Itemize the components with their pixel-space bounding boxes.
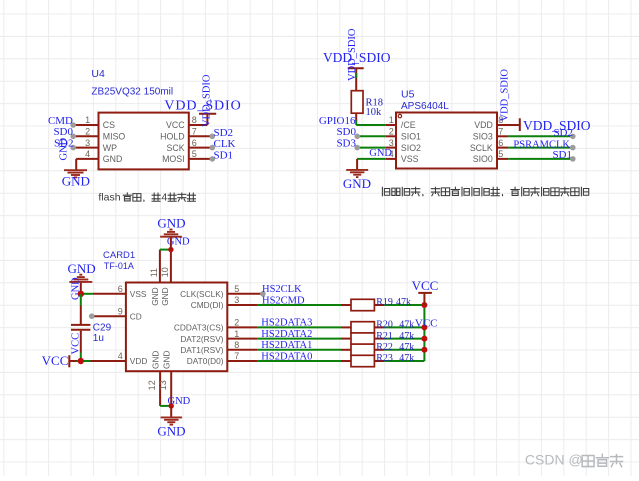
designator U4 [91,68,105,80]
svg-text:APS6404L: APS6404L [401,101,449,112]
svg-text:HS2CMD: HS2CMD [262,295,305,306]
net label CLK [214,138,236,150]
U4 pin 1 CS [73,115,115,130]
svg-text:1u: 1u [93,333,104,344]
svg-text:10: 10 [160,267,170,277]
svg-text:12: 12 [147,380,157,390]
svg-text:SD1: SD1 [552,149,572,161]
ground GND (U5) [343,170,371,191]
CARD1 pin 12 GND (bottom) [147,351,160,406]
net label HS2DATA0 [261,351,312,362]
svg-text:CMD(DI): CMD(DI) [191,300,224,310]
svg-text:HOLD: HOLD [160,132,184,142]
svg-text:/CE: /CE [401,120,416,130]
net label VCC rotated (C29) [70,333,81,355]
dangling wire ends U4 left pins 1-3 [70,122,76,150]
net label SD3 (U5) [336,138,356,150]
svg-text:GND: GND [369,148,392,159]
wire HS2DATA1 [258,349,341,351]
svg-text:7: 7 [234,351,239,361]
svg-text:U4: U4 [91,68,105,80]
svg-text:47k: 47k [399,320,414,331]
svg-text:GND: GND [162,351,172,369]
svg-text:GND: GND [150,351,160,369]
U4 pin 5 MOSI [162,149,212,164]
svg-text:GND: GND [157,423,185,438]
svg-text:CLK(SCLK): CLK(SCLK) [180,289,224,299]
dangling wire end (HS2CLK) [260,291,266,297]
svg-text:1: 1 [234,329,239,339]
U4 pin 6 SCK [167,138,213,153]
svg-text:VDD_SDIO: VDD_SDIO [202,74,213,127]
wire HS2DATA2 [258,338,341,340]
net label HS2CMD [262,295,305,306]
U4 pin 8 VCC [166,115,207,130]
svg-text:47k: 47k [396,297,411,308]
annotation: flash chip note [98,191,195,203]
dangling wire ends U4 right pins 7,6,5 [210,134,216,162]
svg-text:VCC: VCC [412,278,439,293]
wire bottom pins join [160,405,171,407]
svg-text:4: 4 [118,351,123,361]
U5 pin 5 SIO0 [473,149,573,164]
junction (card top) [168,247,173,252]
C29 designator [93,323,112,334]
ground GND inverted (card left) [68,261,96,294]
svg-text:3: 3 [85,138,90,148]
net label SD1 [214,149,234,161]
designator CARD1 [103,250,135,261]
net label HS2CLK [262,284,302,295]
svg-text:CS: CS [103,120,115,130]
R18 designator [366,97,384,108]
svg-text:SIO0: SIO0 [473,154,493,164]
svg-text:CLK: CLK [214,138,236,150]
ground GND inverted (card top) [157,216,185,250]
power port VDD_SDIO (U4 pin 8) [164,99,241,125]
dangling wire ends U5 pins 2,3 [354,134,360,151]
svg-text:2: 2 [389,127,394,137]
U5 pin 8 VDD [474,115,520,130]
net label GND small (card bottom) [168,396,191,407]
comment ZB25VQ32 150mil [91,86,173,97]
svg-text:6: 6 [192,138,197,148]
svg-text:SD2: SD2 [553,127,573,139]
wire HS2DATA0 [258,360,341,362]
svg-text:DAT2(RSV): DAT2(RSV) [180,334,223,344]
junction dots on VCC rail [421,302,427,353]
svg-text:VDD_SDIO: VDD_SDIO [500,69,511,122]
svg-text:HS2DATA2: HS2DATA2 [261,329,312,340]
comment APS6404L [401,101,449,112]
svg-text:2: 2 [85,127,90,137]
svg-text:VCC: VCC [70,333,81,355]
svg-text:HS2DATA1: HS2DATA1 [261,340,312,351]
wire (green fleck below power port) [355,73,357,78]
capacitor C29 [71,325,90,330]
svg-text:SD3: SD3 [336,138,356,150]
svg-text:ZB25VQ32 150mil: ZB25VQ32 150mil [91,86,173,97]
net label PSRAMCLK [513,139,570,150]
net label GND small (card top) [167,237,190,248]
U5 pin 6 SCLK [470,138,573,153]
svg-text:VCC: VCC [166,120,185,130]
svg-text:8: 8 [234,340,239,350]
svg-text:4: 4 [85,149,90,159]
net label GND rotated (card left) [70,277,81,300]
junction (pin6/C29) [78,291,84,297]
svg-text:GND: GND [157,216,185,231]
svg-text:CD: CD [130,311,142,321]
svg-text:8: 8 [192,115,197,125]
net label SD2 (U5) [553,127,573,139]
svg-text:GND: GND [59,137,70,160]
net label SD1 (U5) [552,149,572,161]
svg-text:VDD_SDIO: VDD_SDIO [347,28,358,81]
svg-text:5: 5 [498,149,503,159]
svg-text:9: 9 [118,306,123,316]
wire HS2CMD [258,304,341,306]
svg-text:47k: 47k [399,331,414,342]
svg-text:SD0: SD0 [336,126,356,138]
svg-text:SIO3: SIO3 [473,132,493,142]
svg-text:R22: R22 [376,342,393,353]
ground GND (card bottom) [157,406,185,438]
svg-text:VSS: VSS [130,289,147,299]
svg-text:1: 1 [389,115,394,125]
flash chip U4 body [99,113,189,170]
svg-text:VCC: VCC [42,353,69,368]
dangling wire ends U5 right [570,134,576,162]
U5 chip body APS6404L [396,113,497,169]
svg-text:GND: GND [160,287,170,305]
resistor R22 47k [341,342,424,356]
svg-text:R20: R20 [376,320,393,331]
svg-text:DAT1(RSV): DAT1(RSV) [180,345,223,355]
power port VDD_SDIO (above R18) [323,50,391,91]
junction (card bottom) [169,403,174,408]
net label HS2DATA2 [261,329,312,340]
annotation: memory chip note [382,187,588,196]
svg-text:GPIO16: GPIO16 [319,115,356,127]
CARD1 pin 8 DAT1(RSV) [180,340,257,355]
CARD1 pin 6 VSS [81,284,147,299]
resistor R18 [351,91,363,114]
power port VCC (rail top) [412,278,439,305]
svg-text:GND: GND [62,174,90,189]
svg-text:VCC: VCC [415,317,438,329]
svg-text:SIO2: SIO2 [401,143,421,153]
net label SD2 (U4 pin 7) [214,127,234,139]
wire C29 top [80,294,82,324]
svg-text:CMD: CMD [48,115,73,127]
net label GPIO16 [319,115,356,127]
svg-text:U5: U5 [401,88,415,100]
svg-text:GND: GND [168,396,191,407]
net label GND rotated (U4 pin 4) [59,137,70,160]
watermark [525,451,623,467]
net label SD2 (U4 left) [54,138,74,150]
svg-text:7: 7 [498,127,503,137]
svg-text:HS2DATA3: HS2DATA3 [261,318,312,329]
svg-text:13: 13 [158,380,168,390]
svg-text:WP: WP [103,143,117,153]
net label VDD_SDIO rotated (U5 right) [500,69,511,122]
net label VCC (on rail) [415,317,438,329]
U5 pin 7 SIO3 [473,127,573,142]
svg-text:HS2DATA0: HS2DATA0 [261,351,312,362]
U5 pin 3 SIO2 [357,138,421,153]
svg-text:6: 6 [118,284,123,294]
wire U4 pin4 to ground [75,159,77,170]
CARD1 pin 13 GND (bottom) [158,351,171,406]
svg-text:R21: R21 [376,331,393,342]
net label CMD [48,115,73,127]
wire VCC rail [423,305,425,361]
svg-text:R19: R19 [376,297,393,308]
svg-text:47k: 47k [399,342,414,353]
svg-text:3: 3 [389,138,394,148]
C29 value 1u [93,333,104,344]
svg-text:SCLK: SCLK [470,143,493,153]
U5 pin 4 VSS [357,149,419,164]
svg-text:1: 1 [85,115,90,125]
svg-text:VDD: VDD [474,120,493,130]
net label HS2DATA1 [261,340,312,351]
svg-text:TF-01A: TF-01A [104,261,134,271]
svg-text:GND: GND [103,154,123,164]
CARD1 pin 3 CMD(DI) [191,295,258,310]
comment TF-01A [104,261,134,271]
svg-text:SD1: SD1 [214,149,234,161]
svg-text:HS2CLK: HS2CLK [262,284,302,295]
R18 value 10k [366,107,383,118]
svg-text:GND: GND [68,261,96,276]
wire U5 VSS to ground [356,159,358,170]
svg-text:SD2: SD2 [214,127,234,139]
svg-text:10k: 10k [366,107,383,118]
U4 pin 3 WP [73,138,117,153]
U4 pin 4 GND [76,149,122,164]
svg-text:5: 5 [192,149,197,159]
svg-text:SIO1: SIO1 [401,132,421,142]
resistor R21 47k [341,331,424,345]
power port VDD_SDIO (U5 VDD) [520,118,591,133]
svg-text:4: 4 [161,191,167,203]
resistor R23 47k [341,353,424,366]
svg-text:CSDN @: CSDN @ [525,451,583,467]
resistor R20 47k [341,320,424,334]
SD card connector CARD1 body [126,283,227,372]
U4 pin 7 HOLD [160,127,212,142]
net label GND (U5 VSS) [369,148,392,159]
svg-text:7: 7 [192,127,197,137]
svg-text:SD0: SD0 [53,126,73,138]
net label HS2DATA3 [261,318,312,329]
svg-text:VSS: VSS [401,154,419,164]
U5 pin 2 SIO1 [357,127,421,142]
U5 pin 1 /CE [356,115,415,130]
CARD1 pin 9 CD [89,306,142,321]
wire R18 bottom to GPIO16 node [355,113,357,125]
svg-text:3: 3 [234,295,239,305]
net label SD0 [53,126,73,138]
svg-text:11: 11 [149,268,159,277]
CARD1 pin 1 DAT2(RSV) [180,329,257,344]
power port VCC (card VDD) [42,353,81,368]
net label VDD_SDIO rotated (U4) [202,74,213,127]
wire C29 bottom [80,331,82,361]
svg-text:2: 2 [234,318,239,328]
CARD1 pin 7 DAT0(D0) [187,351,258,366]
svg-text:VDD: VDD [130,356,148,366]
net label SD0 (U5) [336,126,356,138]
svg-text:5: 5 [234,284,239,294]
svg-text:6: 6 [498,138,503,148]
net label VDD_SDIO rotated (above R18) [347,28,358,81]
ground GND (U4) [62,170,90,188]
CARD1 pin 4 VDD [81,351,148,366]
wire top pins join [160,249,171,251]
svg-text:R23: R23 [376,353,393,364]
svg-text:DAT0(D0): DAT0(D0) [187,356,224,366]
junction (VCC/pin4) [78,358,84,364]
svg-text:SCK: SCK [167,143,185,153]
svg-text:flash: flash [98,191,120,203]
CARD1 pin 5 CLK(SCLK) [180,284,263,299]
svg-text:GND: GND [150,287,160,305]
CARD1 pin 11 GND (top) [149,250,160,306]
CARD1 pin 2 CDDAT3(CS) [174,318,258,333]
svg-text:MOSI: MOSI [162,154,184,164]
svg-text:CDDAT3(CS): CDDAT3(CS) [174,323,224,333]
U4 pin 2 MISO [73,127,125,142]
svg-text:47k: 47k [399,353,414,364]
svg-text:GND: GND [343,176,371,191]
svg-text:MISO: MISO [103,132,126,142]
CARD1 pin 10 GND (top) [160,250,171,306]
resistor R19 47k [341,297,424,310]
designator U5 [401,88,415,100]
svg-text:CARD1: CARD1 [103,250,135,261]
wire HS2DATA3 [258,326,341,328]
